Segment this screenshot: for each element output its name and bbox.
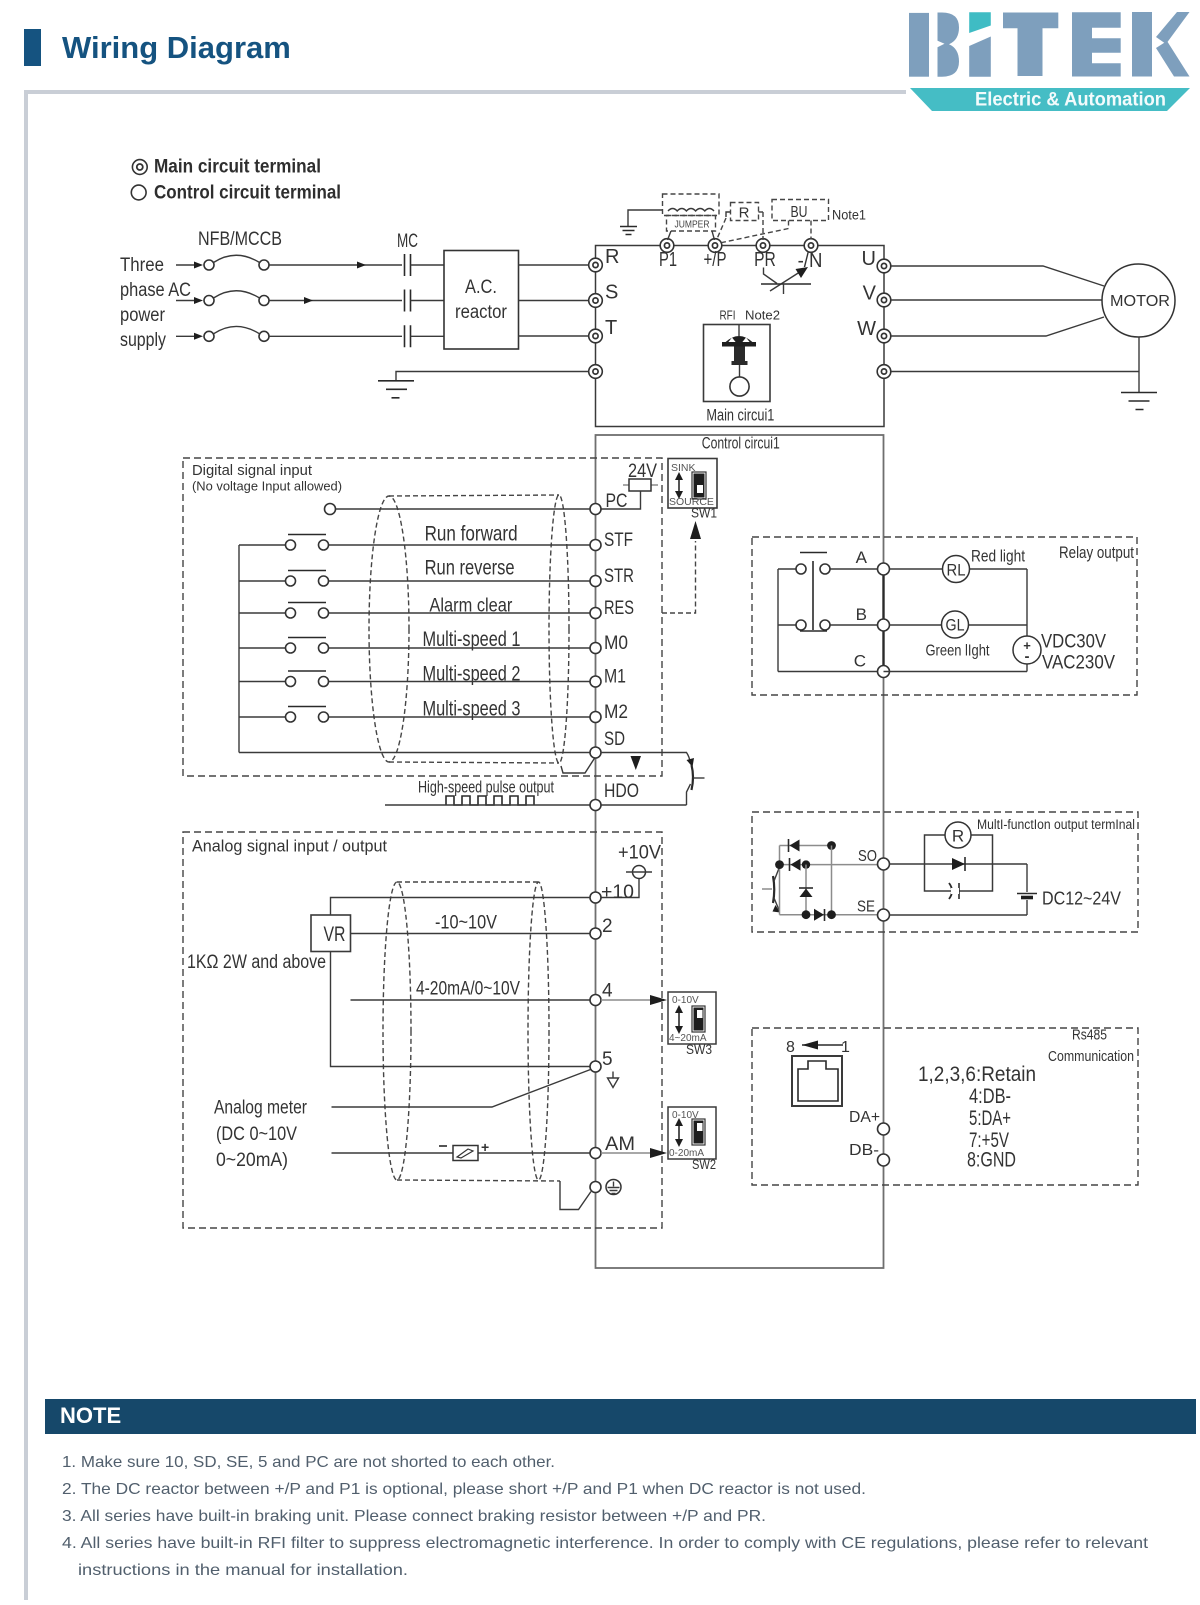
output transistor (762, 867, 780, 913)
svg-text:AM: AM (605, 1134, 635, 1155)
terminal RES row (239, 596, 634, 620)
NOTE header bar (45, 1399, 1196, 1434)
terminal R (589, 246, 620, 272)
svg-text:GL: GL (946, 616, 965, 635)
svg-text:MultI-functIon output termInal: MultI-functIon output termInal (977, 817, 1135, 832)
braking unit BU dashed box (772, 200, 829, 221)
svg-text:Three: Three (120, 255, 164, 276)
digital signal input dashed box (183, 458, 662, 776)
title bullet (24, 29, 41, 66)
svg-text:Wiring Diagram: Wiring Diagram (62, 30, 291, 65)
terminal M2 row (239, 698, 628, 724)
CONTROL BOX (596, 434, 884, 1269)
svg-text:Rs485: Rs485 (1072, 1028, 1107, 1044)
motor circle (1102, 264, 1175, 337)
SW1 dashed arrow from RES level (662, 541, 696, 613)
svg-text:SW1: SW1 (691, 506, 717, 521)
sink current arrow at SD (631, 756, 642, 770)
relay armature bar (800, 553, 827, 631)
SW2 box (668, 1107, 716, 1159)
analog signal dashed box (183, 832, 662, 1228)
svg-text:Control circui1: Control circui1 (702, 434, 780, 453)
svg-text:+/P: +/P (704, 249, 727, 271)
earth symbol (input side) (378, 381, 414, 398)
svg-text:SW3: SW3 (686, 1042, 712, 1057)
svg-text:0~20mA): 0~20mA) (216, 1150, 288, 1171)
svg-text:2. The DC reactor between +/P: 2. The DC reactor between +/P and P1 is … (62, 1481, 866, 1498)
svg-text:DB-: DB- (849, 1142, 879, 1159)
svg-text:BU: BU (791, 204, 808, 221)
svg-text:Run forward: Run forward (425, 522, 518, 545)
svg-text:Main circui1: Main circui1 (706, 406, 774, 425)
SO wire through snubber (890, 863, 1028, 865)
svg-text:DC12~24V: DC12~24V (1042, 889, 1121, 909)
terminal M0 row (239, 628, 628, 654)
terminal STR row (239, 557, 634, 587)
jumper inner dashed box (667, 216, 716, 232)
svg-text:Analog meter: Analog meter (214, 1098, 308, 1119)
svg-text:R: R (952, 827, 964, 846)
svg-text:R: R (605, 246, 619, 268)
SW1 box (668, 459, 717, 509)
terminal V (863, 283, 891, 307)
terminal STF row (239, 522, 633, 551)
terminal DA+ (878, 1123, 890, 1135)
svg-text:8:GND: 8:GND (967, 1149, 1016, 1172)
svg-text:A: A (856, 548, 868, 567)
terminal T (589, 317, 618, 343)
analog common marker (608, 1072, 619, 1088)
breaker pole T phase (176, 326, 402, 341)
snubber rectangle (925, 835, 993, 891)
logo letter K (1132, 12, 1152, 77)
VR box (311, 915, 351, 952)
svg-text:(DC 0~10V: (DC 0~10V (216, 1124, 297, 1145)
terminal E (input ground) (589, 365, 603, 379)
SW1 toggle arrow (678, 478, 680, 493)
HDO transistor arrow (emitter into bar) (687, 758, 695, 767)
MC contact T phase (405, 325, 445, 347)
svg-text:RFI: RFI (720, 308, 736, 323)
terminal SE (878, 909, 890, 921)
svg-text:Run reverse: Run reverse (425, 557, 515, 580)
wire V to motor (891, 299, 1102, 301)
terminal W (857, 318, 891, 343)
svg-text:DA+: DA+ (849, 1109, 880, 1126)
SO row internal wire (780, 864, 878, 866)
jumper coil (668, 209, 714, 212)
terminal E (output ground) (877, 365, 891, 379)
SW1 switch icon (692, 472, 706, 499)
arrow 4 to SW3 (601, 999, 651, 1001)
svg-text:PC: PC (606, 491, 628, 512)
relay supply right bus (884, 569, 1028, 672)
terminal B (878, 619, 890, 631)
svg-text:4-20mA/0~10V: 4-20mA/0~10V (416, 979, 520, 1000)
terminal S (589, 282, 619, 308)
relay contact A (NO) (778, 564, 877, 574)
svg-text:Main circuit terminal: Main circuit terminal (154, 157, 321, 178)
ground wire from inverter ground terminal to earth (396, 372, 589, 381)
internal left rail (779, 846, 781, 915)
+10 row wire to VR (331, 898, 591, 916)
svg-text:SE: SE (857, 899, 875, 916)
terminal +10 (590, 892, 601, 903)
svg-text:STF: STF (604, 530, 633, 551)
svg-text:Control circuit terminal: Control circuit terminal (154, 183, 341, 204)
breaker pole R phase (176, 255, 402, 270)
svg-text:V: V (863, 283, 877, 305)
svg-text:Green lIght: Green lIght (926, 643, 990, 660)
svg-text:High-speed pulse output: High-speed pulse output (418, 778, 554, 797)
svg-text:SO: SO (858, 848, 877, 865)
terminal HDO (590, 800, 601, 811)
Rs485 dashed box (752, 1028, 1138, 1185)
protective earth symbol (606, 1180, 621, 1195)
relay contact B (NC) (778, 620, 877, 631)
SD wire to HDO transistor (601, 753, 690, 763)
svg-text:C: C (854, 652, 866, 671)
svg-text:NOTE: NOTE (60, 1403, 121, 1428)
page frame (gray) (26, 92, 906, 1600)
svg-text:M1: M1 (604, 667, 626, 688)
resistor R right lead (759, 211, 764, 213)
SW3 box (668, 992, 716, 1044)
svg-text:1KΩ 2W and above: 1KΩ 2W and above (187, 952, 326, 973)
terminal A (878, 563, 890, 575)
PC row wire (336, 508, 590, 510)
svg-text:-10~10V: -10~10V (435, 913, 497, 934)
LEGEND (131, 157, 341, 204)
svg-text:JUMPER: JUMPER (675, 220, 710, 231)
svg-text:supply: supply (120, 330, 166, 351)
svg-text:STR: STR (604, 566, 634, 587)
wire to 4 (351, 999, 591, 1001)
svg-text:+10V: +10V (618, 843, 661, 864)
MOTOR (891, 264, 1175, 410)
PC row end circle (325, 504, 336, 515)
terminal ground (shield) (590, 1182, 601, 1193)
DIGITAL SECTION (183, 458, 717, 811)
meter + AM wire (332, 1152, 591, 1154)
top clamp diode branch (780, 845, 832, 847)
MC contact S phase (405, 290, 445, 312)
A.C. reactor box (444, 251, 519, 350)
RS485 SECTION (752, 1028, 1138, 1186)
svg-text:+10: +10 (601, 882, 634, 903)
main circuit terminal legend symbol (132, 160, 147, 175)
terminal 4 (590, 995, 601, 1006)
svg-text:M0: M0 (604, 633, 628, 654)
ANALOG SECTION (183, 832, 716, 1228)
logo letter T (1003, 13, 1058, 77)
analog meter symbol (439, 1139, 489, 1161)
terminal P1 (659, 239, 677, 271)
svg-text:RES: RES (604, 598, 634, 619)
shield drain wire to ground terminal (560, 1181, 591, 1210)
svg-text:2: 2 (602, 916, 613, 937)
svg-text:instructions in the manual for: instructions in the manual for installat… (78, 1562, 408, 1579)
snubber capacitor (949, 883, 959, 899)
svg-text:-: - (1025, 648, 1030, 665)
+10V wire (601, 879, 639, 898)
jumper ground symbol (628, 210, 663, 226)
svg-text:5:DA+: 5:DA+ (969, 1107, 1011, 1130)
svg-text:R: R (739, 205, 750, 222)
motor ground wire (1138, 337, 1140, 393)
cable shield (analog) top/bottom lines (397, 882, 560, 1181)
logo letter E (1072, 12, 1121, 76)
svg-text:SD: SD (604, 729, 625, 750)
cable shield (analog) left ellipse (383, 882, 411, 1180)
terminal 2 (590, 928, 601, 939)
PC wire (601, 491, 641, 509)
svg-text:power: power (120, 305, 166, 326)
svg-text:NFB/MCCB: NFB/MCCB (198, 229, 282, 250)
svg-text:4:DB-: 4:DB- (969, 1085, 1011, 1108)
NOTE SECTION (45, 1399, 1196, 1579)
zener diode vertical (805, 865, 807, 915)
breaker pole S phase (176, 291, 402, 306)
internal right rail (831, 846, 833, 915)
svg-text:Note1: Note1 (832, 208, 866, 223)
svg-text:3. All series have built-in br: 3. All series have built-in braking unit… (62, 1508, 766, 1525)
svg-text:M2: M2 (604, 702, 628, 723)
terminal PC (590, 504, 601, 515)
svg-text:1. Make sure 10, SD, SE, 5 and: 1. Make sure 10, SD, SE, 5 and PC are no… (62, 1454, 555, 1471)
svg-text:1,2,3,6:Retain: 1,2,3,6:Retain (918, 1063, 1036, 1086)
cable shield (digital) left ellipse (369, 496, 409, 762)
svg-text:Note2: Note2 (745, 308, 780, 323)
svg-text:Red light: Red light (971, 547, 1025, 566)
RFI box (704, 325, 771, 402)
MC contact R phase (405, 254, 445, 276)
terminal M1 row (239, 663, 626, 688)
svg-text:A.C.: A.C. (465, 277, 497, 298)
terminal U (862, 248, 891, 273)
meter wire to 5 (332, 1070, 591, 1108)
VR bottom wire to 5 (331, 952, 591, 1067)
svg-text:VAC230V: VAC230V (1042, 653, 1115, 674)
MAIN CIRCUIT (589, 194, 891, 427)
wires reactor to R S T terminals (519, 265, 590, 336)
logo banner (teal) (910, 88, 1190, 111)
svg-text:T: T (605, 317, 617, 339)
terminal C (878, 666, 890, 678)
svg-text:B: B (856, 605, 867, 624)
lamp RL (red light) (890, 568, 1028, 570)
control circuit box (596, 435, 884, 1268)
HDO row wire (385, 804, 687, 806)
svg-text:MOTOR: MOTOR (1110, 293, 1170, 310)
RFI screw symbol (722, 325, 756, 397)
svg-text:VDC30V: VDC30V (1041, 632, 1106, 653)
lamp GL (green light) (890, 624, 1028, 626)
relay output dashed box (752, 537, 1137, 695)
HDO transistor collector to HDO (687, 784, 691, 805)
SE wire to battery (890, 914, 1028, 916)
relay coil R (945, 822, 971, 848)
relay C wire (778, 671, 877, 673)
arrow AM to SW2 (601, 1152, 651, 1154)
cable shield (digital) right ellipse (549, 495, 569, 763)
svg-text:Electric & Automation: Electric & Automation (975, 90, 1166, 111)
logo letter i stem (969, 37, 991, 77)
svg-text:SW2: SW2 (692, 1157, 716, 1172)
POWER INPUT (120, 229, 589, 398)
cable shield (analog) right ellipse (528, 882, 549, 1180)
HDO transistor bar (692, 765, 694, 790)
logo letter i dot (teal triangle) (969, 12, 991, 33)
terminal SO (878, 858, 890, 870)
HDO transistor base stub (694, 777, 705, 779)
svg-text:phase AC: phase AC (120, 280, 191, 301)
RJ45 jack (792, 1056, 842, 1106)
terminal -/N (798, 239, 823, 272)
resistor R left lead (726, 212, 731, 217)
bus emphasis A to C (882, 575, 884, 666)
SD row wire (239, 752, 590, 754)
BU leads (722, 221, 789, 243)
snubber diode (952, 858, 965, 870)
svg-text:Digital signal input: Digital signal input (192, 462, 313, 479)
switch common bus (238, 545, 240, 753)
terminal AM (590, 1148, 601, 1159)
terminal 5 (590, 1061, 601, 1072)
earth symbol (motor) (1121, 393, 1157, 410)
junction dot top right (827, 841, 836, 850)
terminal SD (590, 747, 601, 758)
svg-text:4: 4 (602, 981, 613, 1002)
terminal +/P (704, 239, 727, 271)
relay common left bus (777, 569, 779, 672)
svg-text:HDO: HDO (604, 781, 639, 802)
logo letter B (909, 13, 929, 77)
multi-function output dashed box (752, 812, 1138, 932)
wire W to motor (891, 317, 1104, 336)
terminal PR (754, 239, 776, 271)
RELAY SECTION (752, 537, 1137, 695)
VR wiper wire to 2 (351, 933, 591, 935)
SE row internal wire (780, 914, 878, 916)
svg-text:Analog signal input / output: Analog signal input / output (192, 837, 387, 856)
svg-text:W: W (857, 318, 876, 340)
inverter ground wire to motor ground (891, 371, 1139, 373)
LOGO (909, 12, 1190, 111)
battery DC12~24V (1026, 864, 1028, 892)
resistor R dashed box (731, 203, 759, 221)
main circuit box (596, 246, 885, 427)
svg-text:VR: VR (324, 923, 346, 946)
relay power source (1013, 636, 1041, 664)
MULTIFUNCTION SECTION (752, 812, 1138, 932)
+10V supply symbol (633, 866, 646, 879)
svg-text:S: S (605, 282, 618, 304)
control circuit terminal legend symbol (131, 185, 146, 200)
pulse waveform (446, 796, 534, 805)
24V fuse (629, 479, 651, 491)
svg-text:Relay output: Relay output (1059, 543, 1134, 562)
svg-text:PR: PR (754, 249, 776, 271)
svg-text:Communication: Communication (1048, 1049, 1134, 1065)
jumper leads to P1 and +/P (668, 231, 715, 240)
svg-text:5: 5 (602, 1049, 613, 1070)
svg-text:(No voltage Input allowed): (No voltage Input allowed) (192, 479, 342, 494)
cable shield (digital) top/bottom lines (389, 495, 559, 763)
jumper outer dashed box (663, 194, 720, 216)
svg-text:MC: MC (397, 231, 418, 252)
braking transistor (761, 267, 811, 294)
svg-text:8: 8 (786, 1039, 795, 1056)
wire U to motor (891, 266, 1104, 286)
svg-text:4. All series have built-in RF: 4. All series have built-in RFI filter t… (62, 1535, 1149, 1552)
shield drain to SD (561, 758, 595, 774)
svg-text:1: 1 (841, 1039, 850, 1056)
24V fuse wire (623, 484, 658, 486)
svg-text:reactor: reactor (455, 302, 508, 323)
svg-text:+: + (481, 1139, 489, 1155)
svg-text:U: U (862, 248, 876, 270)
terminal DB- (878, 1154, 890, 1166)
svg-text:0-10V: 0-10V (672, 995, 699, 1006)
svg-text:RL: RL (947, 561, 966, 580)
svg-text:P1: P1 (659, 249, 677, 271)
